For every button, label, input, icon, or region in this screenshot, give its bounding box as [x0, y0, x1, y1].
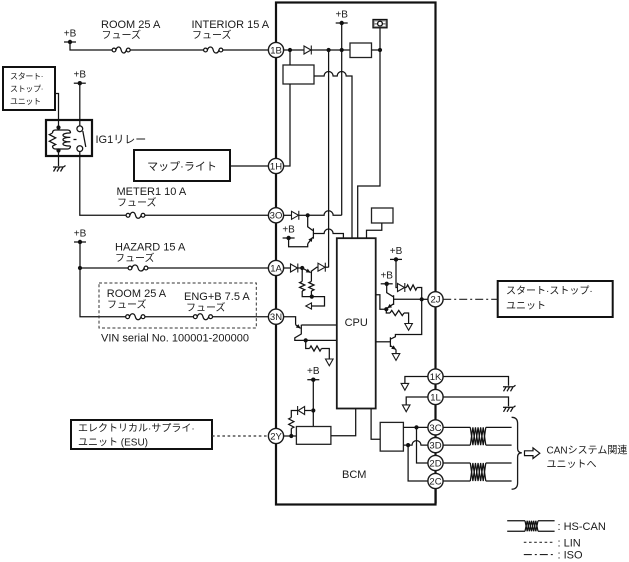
wire D3 to node: [298, 267, 302, 269]
wire ESU block to CPU: [331, 409, 356, 436]
diode D1 (1B line): [304, 46, 311, 55]
diode D5 (2Y clamp): [298, 406, 305, 415]
wire 1K external to ground: [443, 377, 508, 386]
map light box: [134, 150, 230, 181]
relay switch blade: [83, 131, 86, 147]
svg-text:+B: +B: [307, 366, 320, 377]
node junction 1A: [300, 266, 304, 270]
wire Q3 node to CPU: [306, 339, 337, 341]
wire 1L external to ground: [443, 397, 508, 406]
svg-text:: HS-CAN: : HS-CAN: [558, 521, 606, 533]
svg-text:VIN serial No. 100001-200000: VIN serial No. 100001-200000: [101, 333, 249, 345]
power +B B1 (ROOM/INTERIOR feed): [64, 29, 77, 45]
power +B B8 (Q4 collector): [380, 270, 393, 286]
svg-text:ENG+B 7.5 A: ENG+B 7.5 A: [184, 291, 250, 303]
node junction 2J: [420, 297, 424, 301]
wire 3C-pair to 2D: [417, 427, 429, 463]
resistor R1: [300, 281, 305, 291]
node junction 1B/+B4: [340, 48, 344, 52]
diode D4 (to 1B net): [318, 263, 325, 272]
power +B B2 (IG1 relay): [74, 70, 87, 86]
wire D2 to node: [299, 214, 308, 216]
node junction 1B/relay-driver: [288, 48, 292, 52]
ground (1K internal) (open-triangle): [401, 383, 409, 390]
connector 1K: [428, 369, 443, 384]
svg-text:1K: 1K: [430, 372, 442, 383]
wire ROOM to ENG+B fuse: [145, 316, 194, 318]
wire CPU to CAN block: [371, 409, 380, 440]
svg-text:3C: 3C: [429, 423, 441, 434]
svg-text:BCM: BCM: [342, 469, 366, 481]
wire INTERIOR fuse to 1B: [223, 49, 269, 51]
svg-text:+B: +B: [74, 229, 87, 240]
wire Q3 lower to node: [295, 334, 306, 340]
node junction lamp/1B: [378, 48, 382, 52]
svg-text:スタート·ストップ·: スタート·ストップ·: [506, 285, 593, 297]
connector 3O: [268, 208, 283, 223]
brace (CAN bundle): [512, 417, 522, 489]
fuse symbol ENG+B 7.5A: [193, 314, 212, 320]
svg-text:ROOM 25 A: ROOM 25 A: [101, 19, 161, 31]
ESU interface block: [296, 427, 331, 445]
svg-text:フューズ: フューズ: [102, 29, 142, 42]
wire 1B-a vertical down to D3 (1A): [328, 50, 330, 267]
ground (1L internal) (open-triangle): [402, 405, 410, 412]
svg-text:ユニット: ユニット: [10, 97, 41, 106]
connector 2D: [428, 455, 443, 470]
wire D1 to resistor box: [311, 49, 350, 51]
wire D5 to R4: [291, 411, 297, 418]
resistor R5: [406, 285, 417, 290]
wire Q3 top to CPU: [302, 324, 337, 326]
connector 2Y: [268, 428, 283, 443]
connector 1B: [268, 42, 283, 57]
power +B B4 (internal top): [335, 10, 348, 26]
power +B B7 (2J diode feed): [390, 246, 403, 262]
wire start-stop to relay coil: [55, 94, 59, 128]
svg-text:ストップ·: ストップ·: [10, 85, 43, 94]
twisted-pair symbol 2D/2C: [470, 463, 486, 481]
svg-text:フューズ: フューズ: [186, 301, 226, 314]
ground (1K) (hatched): [503, 385, 516, 391]
BCM enclosure box: [276, 3, 436, 505]
svg-text:3N: 3N: [270, 312, 282, 323]
resistor R3: [310, 346, 322, 351]
connector 1A: [268, 260, 283, 275]
wire node to R6: [386, 309, 390, 313]
svg-text:フューズ: フューズ: [107, 298, 147, 311]
wire +B6 down to ESU block: [312, 380, 314, 427]
relay/driver block below 1B: [283, 65, 314, 84]
wire 1A node to R1: [301, 268, 303, 281]
relay IG1 box: [46, 120, 92, 156]
CAN transceiver block: [380, 422, 403, 451]
wire node to 2J: [422, 298, 428, 300]
wire node to R3: [306, 340, 310, 348]
fuse symbol METER1 10A: [126, 212, 145, 218]
wire HAZARD fuse to 1A: [148, 267, 269, 269]
diode D3 (1A line): [291, 264, 298, 273]
fuse symbol INTERIOR 15A: [204, 47, 223, 53]
wire ENG+B fuse to 3N: [213, 316, 269, 318]
wire Q4 emitter to node: [385, 307, 388, 310]
wire 1B to diode D1: [284, 49, 304, 51]
wire oscillator to CPU: [367, 223, 382, 238]
svg-text:エレクトリカル·サプライ·: エレクトリカル·サプライ·: [78, 423, 195, 435]
wire Q1 collector: [308, 215, 313, 230]
connector 2C: [428, 473, 443, 488]
node junction Q4 emitter: [384, 307, 388, 311]
wire Q5 emitter down: [395, 350, 397, 354]
Q1 emitter arrow: [308, 237, 313, 244]
node junction 3O: [306, 213, 310, 217]
wire legend HS-CAN left: [507, 521, 525, 532]
svg-text:フューズ: フューズ: [192, 29, 232, 42]
wire Q2 to R2: [310, 278, 312, 281]
wire 2J node to Q5 collector: [391, 299, 422, 339]
node relay coil bottom: [56, 148, 60, 152]
CPU block: [337, 238, 376, 408]
legend LIN symbol: [524, 541, 554, 543]
ground (Q5) (open-triangle): [392, 354, 400, 361]
connector 1H: [268, 158, 283, 173]
wire +B4 vertical to 3O corner: [341, 50, 343, 215]
power +B B6 (2Y pullup): [307, 366, 320, 382]
wire R5 to 2J node: [417, 288, 422, 300]
wire 3O to D2: [284, 214, 292, 216]
wire Q1 base to CPU (crossover): [313, 229, 343, 238]
svg-text:1A: 1A: [270, 263, 282, 274]
connector 3N: [268, 309, 283, 324]
svg-text:ユニット (ESU): ユニット (ESU): [78, 438, 148, 449]
wire CPU to Q4 node: [376, 295, 387, 309]
wire CAN block to 3C: [403, 426, 428, 428]
power +B B3 (HAZARD/ROOM-ENG feed): [74, 229, 87, 245]
wire Q4 base to 2J node: [394, 298, 422, 300]
wire lamp icon down to 1B line: [379, 28, 381, 50]
wire map light to 1H: [230, 165, 268, 167]
wire D6 to R5: [405, 287, 407, 289]
svg-text:ユニット: ユニット: [506, 301, 546, 312]
wire METER1 fuse to 3O: [145, 214, 269, 216]
indicator lamp icon: [373, 20, 387, 28]
block arrow (to CAN units): [525, 448, 540, 459]
wire ROOM fuse to INTERIOR fuse: [130, 49, 203, 51]
VIN-range dashed box: [99, 283, 256, 328]
wire CPU to Q5 base: [376, 341, 390, 343]
wire to HAZARD fuse: [80, 267, 128, 269]
wire 2D/2C twist to brace: [486, 463, 512, 481]
relay switch contacts: [77, 126, 83, 152]
node junction 2Y: [289, 434, 293, 438]
svg-text:: ISO: : ISO: [558, 550, 584, 562]
node junction Q3 out: [304, 338, 308, 342]
relay coil suppression resistor: [49, 133, 55, 146]
wire to output arrow: [312, 297, 325, 306]
wire coil to ground: [58, 151, 60, 167]
electrical supply unit (ESU) box: [71, 420, 212, 449]
svg-text:HAZARD 15 A: HAZARD 15 A: [115, 242, 186, 254]
svg-text:: LIN: : LIN: [558, 538, 581, 550]
wire down to ROOM fuse (VIN box): [80, 268, 126, 317]
node relay coil top: [56, 125, 60, 129]
svg-text:IG1リレー: IG1リレー: [96, 134, 147, 146]
svg-text:マップ·ライト: マップ·ライト: [147, 160, 217, 173]
svg-text:ROOM 25 A: ROOM 25 A: [107, 288, 167, 300]
svg-text:1H: 1H: [270, 161, 282, 172]
fuse symbol HAZARD 15A: [128, 265, 148, 271]
wire R1/R2 join: [302, 291, 312, 297]
connector 3D: [428, 438, 443, 453]
svg-text:2C: 2C: [429, 476, 441, 487]
wire D5 to +B6 vertical: [305, 410, 312, 412]
wire driver block down to 1H: [284, 84, 290, 166]
relay mechanical link: [74, 139, 79, 141]
node junction D1a: [327, 48, 331, 52]
wire Q2 collector to D4: [312, 267, 318, 271]
legend ISO symbol: [524, 554, 554, 556]
svg-text:+B: +B: [380, 270, 393, 281]
relay coil loop frame: [53, 128, 71, 151]
svg-text:+B: +B: [74, 70, 87, 81]
wire lamp node down into CPU: [358, 50, 380, 238]
oscillator block right of CPU: [372, 208, 394, 223]
Q3 input arrow: [296, 324, 301, 328]
svg-text:CANシステム関連: CANシステム関連: [547, 444, 628, 457]
ground (IG1 coil) (hatched): [53, 166, 66, 172]
resistor R4: [289, 418, 294, 429]
svg-text:+B: +B: [64, 29, 77, 40]
svg-text:フューズ: フューズ: [117, 196, 157, 209]
ground (Q4) (open-triangle): [405, 324, 413, 331]
node junction 3C: [414, 425, 418, 429]
wire 1B junction to driver block: [289, 50, 291, 65]
wire +B3 down to 1A line: [79, 242, 81, 268]
Q4 emitter arrow: [387, 304, 393, 308]
wire ESU to 2Y (LIN dashed): [212, 435, 268, 437]
Q2 emitter arrow: [302, 268, 310, 273]
svg-text:2D: 2D: [429, 458, 441, 469]
fuse symbol ROOM 25A: [112, 47, 130, 53]
resistor block on 1B line: [350, 43, 372, 58]
svg-text:3D: 3D: [429, 441, 441, 452]
svg-text:3O: 3O: [270, 211, 283, 222]
wire +B7 to D6: [396, 259, 398, 287]
wire 2D/2C pair to twist: [443, 463, 470, 481]
twisted-pair symbol 3C/3D: [470, 427, 486, 445]
wire driver block to CPU (with crossovers): [314, 72, 352, 239]
svg-text:ユニットへ: ユニットへ: [547, 460, 597, 471]
node junction 1A feed: [78, 266, 82, 270]
svg-text:+B: +B: [390, 246, 403, 257]
wire R6 to ground: [404, 313, 409, 324]
wire +B8 to Q4 collector: [387, 284, 394, 297]
wire 3N to Q3: [284, 317, 296, 325]
svg-text:スタート·: スタート·: [10, 72, 43, 81]
ground (3N) (open-triangle): [326, 359, 334, 366]
wire +B2 to relay switch: [79, 83, 81, 126]
wire 3O node to +B4 vertical (crossover): [308, 211, 342, 216]
wire 1A to D3: [284, 267, 291, 269]
wire 3C/3D pair to twist: [443, 427, 470, 445]
connector 1L: [428, 389, 443, 404]
wire +B1 to ROOM fuse: [70, 42, 112, 50]
wire +B4 down to 1B line: [341, 23, 343, 50]
power +B B5 (Q1 emitter): [282, 225, 295, 241]
svg-text:CPU: CPU: [345, 317, 368, 329]
Q5 emitter arrow: [390, 345, 396, 349]
BCM bottom-right heavy corner: [435, 489, 437, 504]
node junction 3D: [406, 443, 410, 447]
wire D4 to 1B vertical: [325, 266, 328, 268]
node junction R1R2: [310, 295, 314, 299]
wire legend HS-CAN right: [538, 521, 555, 532]
node junction D5: [311, 408, 315, 412]
svg-text:+B: +B: [335, 10, 348, 21]
wire 3C/3D twist to brace: [486, 427, 512, 445]
relay coil winding: [63, 133, 71, 146]
svg-text:+B: +B: [282, 225, 295, 236]
wire R3 to ground: [322, 349, 330, 360]
wire +B5 to Q1 emitter: [289, 238, 308, 247]
start-stop unit box (left): [3, 67, 55, 110]
resistor R2: [309, 281, 314, 291]
svg-text:2J: 2J: [430, 295, 440, 306]
svg-text:2Y: 2Y: [270, 431, 282, 442]
wire 1K internal: [405, 377, 428, 384]
wire R4 to 2Y node: [290, 429, 292, 437]
wire 2Y to ESU block: [284, 435, 297, 437]
connector 3C: [428, 420, 443, 435]
wire box to lamp node: [372, 49, 381, 51]
wire relay switch to METER1 fuse: [80, 152, 126, 216]
svg-text:1B: 1B: [270, 45, 282, 56]
start-stop unit box (right): [498, 281, 613, 317]
wire 2J to start-stop unit (ISO dash-dot): [443, 298, 498, 300]
diode D6 (2J): [398, 283, 405, 292]
twisted-pair symbol legend: [525, 521, 538, 532]
svg-text:フューズ: フューズ: [115, 252, 155, 265]
wire CAN block to 3D (crossover): [403, 441, 428, 446]
svg-text:METER1 10 A: METER1 10 A: [117, 186, 187, 198]
diode D2 (3O line): [292, 211, 299, 220]
wire 1L internal: [406, 397, 428, 405]
fuse symbol ROOM 25A (VIN): [126, 314, 145, 320]
resistor R6: [390, 310, 404, 315]
svg-text:1L: 1L: [430, 392, 441, 403]
output arrow (open, pointing left): [306, 303, 312, 309]
ground (1L) (hatched): [503, 406, 516, 412]
wire 3D-pair to 2C: [408, 445, 428, 481]
connector 2J: [428, 292, 443, 307]
svg-text:INTERIOR 15 A: INTERIOR 15 A: [192, 19, 270, 31]
